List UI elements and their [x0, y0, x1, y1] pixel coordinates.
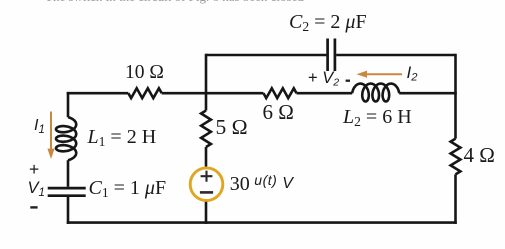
resistor 6 ohm (R2) zigzag [264, 88, 297, 98]
label 4 ohm [464, 145, 495, 166]
wire: main wire, 6-ohm to L2 [297, 92, 353, 95]
wire: middle vertical, 5-ohm to source [205, 147, 208, 167]
label C2 = 2 uF [289, 12, 367, 34]
polarity minus sign of V1 [30, 206, 37, 208]
label 6 ohm [263, 102, 294, 123]
label V1 name [28, 180, 45, 199]
polarity minus sign of V2 [346, 80, 350, 82]
resistor 10 ohm (R1) zigzag [128, 88, 161, 98]
current arrow I2 (leftward, orange) [366, 73, 402, 75]
resistor 5 ohm (R3) zigzag [201, 111, 211, 148]
label 10 ohm [125, 63, 164, 83]
label L1 = 2 H [88, 127, 157, 149]
label I1 current name [34, 118, 45, 136]
wire: left branch, main wire down to L1 [67, 92, 70, 117]
label C1 = 1 uF [89, 178, 167, 200]
current arrow I1 (downward, orange) [50, 112, 52, 150]
resistor 4 ohm (R4) zigzag [451, 139, 461, 175]
wire: right branch, 4-ohm to bottom rail [454, 174, 457, 224]
inductor L1 coil [56, 117, 76, 160]
wire: main wire, 10-ohm to 6-ohm [162, 92, 264, 95]
wire: left branch, L1 to C1 [67, 160, 70, 187]
inductor L2 coil [352, 84, 399, 102]
wire: main wire, left corner to 10-ohm [67, 92, 129, 95]
label I2 current name [407, 64, 418, 84]
voltage source minus sign [200, 191, 213, 194]
wire: top rail right segment (C2 to right branch) [336, 54, 455, 57]
capacitor C1 plates [48, 188, 86, 196]
wire: bottom rail [67, 221, 457, 224]
wire: left branch, C1 to bottom rail [67, 197, 70, 224]
label 5 ohm [216, 117, 248, 139]
wire: middle vertical, source to bottom rail [205, 202, 208, 224]
wire: middle vertical, main wire to 5-ohm [205, 93, 208, 110]
cropped caption text at top [45, 0, 304, 3]
voltage source 30u(t)V circle [190, 168, 223, 201]
label L2 = 6 H [343, 107, 412, 129]
wire: main wire, L2 to right branch [399, 92, 457, 95]
capacitor C2 plates [328, 39, 335, 72]
label V1 plus polarity [29, 161, 39, 179]
wire: right branch, top rail to 4-ohm [454, 54, 457, 139]
label 30 u(t) V source value [230, 173, 293, 194]
voltage source plus sign [201, 171, 213, 182]
wire: top rail left segment (node to C2) [206, 54, 326, 57]
label +V2- polarity [308, 70, 339, 88]
wire: middle vertical, top rail to main wire [205, 54, 208, 93]
